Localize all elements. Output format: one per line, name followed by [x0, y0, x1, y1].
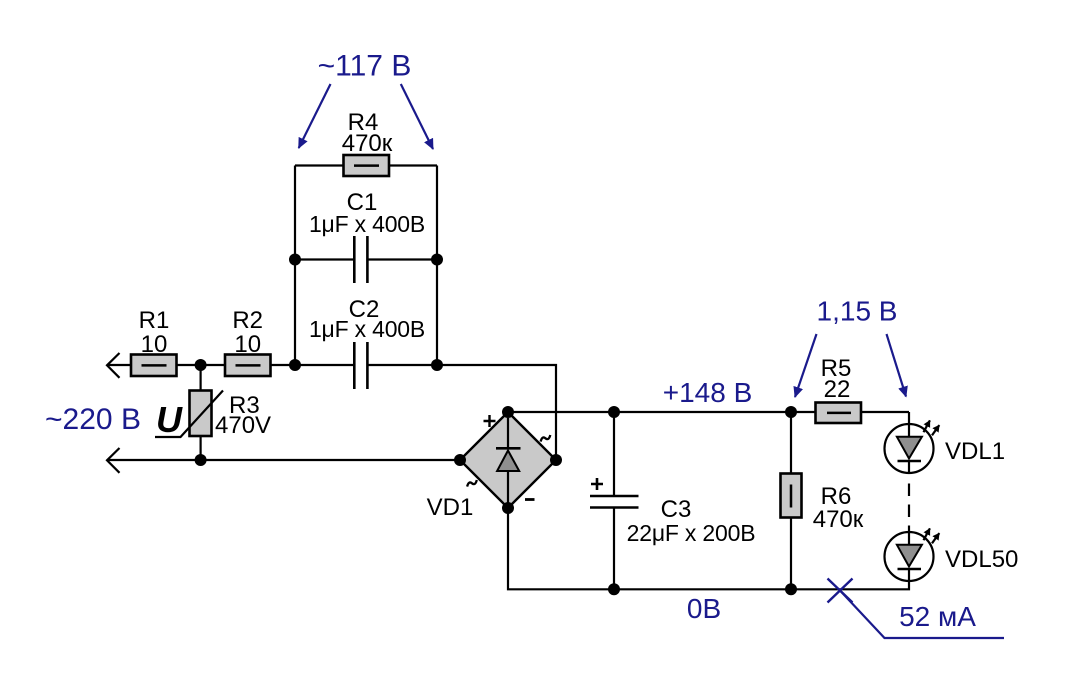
svg-text:52 мА: 52 мА — [899, 601, 976, 632]
svg-text:470к: 470к — [813, 506, 864, 533]
node: R5/R6 junction — [785, 406, 797, 418]
svg-text:470V: 470V — [215, 412, 271, 439]
arrow: blue right pointer of ~117V — [401, 84, 433, 149]
wire: C1 row y=259.5 — [295, 258, 437, 260]
capacitor C1 — [309, 189, 425, 283]
wire: R6 branch x=791 — [790, 412, 792, 589]
wire: bottom 0V rail — [508, 508, 909, 589]
varistor R3 — [155, 391, 271, 441]
wire: blue leader to 52 mA — [840, 591, 1004, 639]
node: junction C2 right — [431, 359, 443, 371]
svg-text:~117 В: ~117 В — [318, 50, 412, 83]
svg-text:VD1: VD1 — [427, 494, 474, 521]
node: C1 left — [289, 254, 301, 266]
svg-text:R2: R2 — [232, 307, 263, 334]
svg-text:0В: 0В — [687, 593, 721, 624]
svg-text:22: 22 — [824, 376, 851, 403]
svg-text:22μF x 200В: 22μF x 200В — [627, 520, 756, 546]
wire: AC live input y=365 — [109, 364, 296, 366]
node: C3 bottom junction — [608, 583, 620, 595]
svg-text:1μF x 400В: 1μF x 400В — [309, 211, 425, 237]
arrow: blue right pointer of 1,15V — [887, 334, 907, 397]
node: junction R2/C-loop left — [289, 359, 301, 371]
wire: left vertical of C-loop x=295 — [294, 166, 296, 366]
arrow: neutral input open arrowhead — [107, 448, 120, 473]
svg-text:VDL50: VDL50 — [945, 546, 1018, 573]
arrow: blue left pointer of ~117V — [299, 84, 331, 148]
resistor R5 — [816, 355, 862, 423]
resistor R1 — [131, 307, 177, 376]
node: bridge right corner — [550, 454, 562, 466]
arrow: blue left pointer of 1,15V — [795, 334, 817, 397]
wire: top loop with R4, y=165 — [295, 164, 437, 166]
resistor R2 — [225, 307, 271, 376]
diode bridge VD1 — [427, 412, 556, 521]
marker: blue X current break — [828, 579, 853, 603]
svg-text:1μF x 400В: 1μF x 400В — [309, 316, 425, 342]
wire: LED branch drop from rail x=909 — [908, 412, 910, 425]
resistor R4 — [342, 109, 393, 176]
node: bridge left corner — [454, 454, 466, 466]
node: neutral/R3 junction — [195, 454, 207, 466]
wire: R3 varistor branch x=200.6 — [200, 365, 202, 460]
svg-text:10: 10 — [141, 331, 168, 358]
svg-text:10: 10 — [234, 331, 261, 358]
svg-text:R1: R1 — [139, 307, 170, 334]
node: junction R1/R2/R3 — [195, 359, 207, 371]
svg-text:VDL1: VDL1 — [945, 438, 1005, 465]
resistor R6 — [781, 474, 864, 534]
svg-text:1,15 В: 1,15 В — [817, 296, 898, 327]
wire: AC neutral input y=460 — [109, 459, 461, 461]
node: bridge bottom corner — [502, 502, 514, 514]
svg-text:+148 В: +148 В — [663, 377, 753, 408]
node: R6 bottom junction — [785, 583, 797, 595]
wire: +148V output rail y=412 — [508, 411, 909, 413]
node: C3 top junction — [608, 406, 620, 418]
capacitor C2 — [309, 296, 425, 389]
wire: link from C-loop to bridge right corner — [437, 365, 556, 460]
wire: C3 branch x=614 — [613, 412, 615, 589]
capacitor C3 — [590, 478, 755, 546]
wire: dashed series-LED link — [908, 484, 910, 532]
arrow: live input open arrowhead — [107, 353, 120, 378]
LED VDL50 — [885, 528, 1019, 581]
node: bridge top corner — [502, 406, 514, 418]
wire: right vertical of C-loop x=437 — [436, 166, 438, 366]
svg-text:470к: 470к — [342, 130, 393, 157]
LED VDL1 — [885, 420, 1006, 473]
svg-text:~220 В: ~220 В — [45, 403, 141, 436]
svg-text:U: U — [156, 399, 183, 440]
svg-text:C3: C3 — [661, 496, 692, 523]
wire: C2 row y=365 — [295, 364, 437, 366]
node: C1 right — [431, 254, 443, 266]
